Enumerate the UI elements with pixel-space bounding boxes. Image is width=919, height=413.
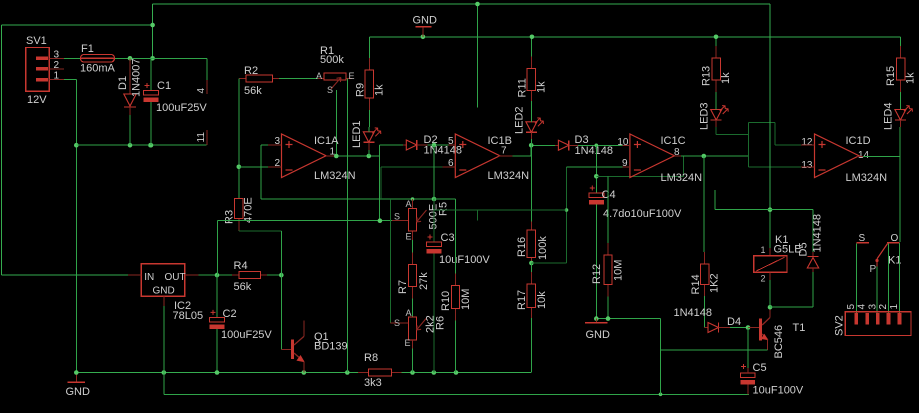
node R13 top — [714, 35, 719, 40]
svg-text:IC1C: IC1C — [661, 135, 686, 147]
svg-text:10uF100V: 10uF100V — [753, 385, 804, 397]
fuse F1 160mA — [81, 55, 115, 63]
wire Q1 base — [281, 349, 289, 351]
svg-text:BC546: BC546 — [773, 325, 785, 359]
wire R1 E to gnd rail — [346, 79, 348, 373]
LED LED1 — [363, 132, 374, 143]
resistor R17 10k — [530, 263, 532, 272]
wire SV1 pin3 to fuse — [64, 57, 81, 59]
svg-text:A: A — [316, 71, 322, 81]
svg-text:C4: C4 — [602, 189, 616, 201]
pin 11 of IC1A power — [206, 130, 208, 145]
svg-text:100k: 100k — [537, 236, 549, 260]
svg-text:IC1A: IC1A — [314, 135, 339, 147]
wire switch O to SV2 pin2 — [888, 244, 890, 313]
wire H1 feedback — [261, 198, 434, 200]
wire relay node — [768, 305, 773, 310]
svg-text:E: E — [349, 71, 355, 81]
svg-text:LM324N: LM324N — [661, 172, 703, 184]
wire 12V drop right — [769, 4, 771, 210]
svg-text:56k: 56k — [234, 281, 252, 293]
wire D2 feed — [380, 144, 403, 146]
wire pin3 feedback drop — [260, 145, 262, 199]
node gnd-sym tap — [421, 35, 426, 40]
wire V+ drop to pin4 — [206, 58, 208, 80]
ground symbol lower-left — [75, 373, 77, 382]
svg-text:13: 13 — [801, 160, 813, 171]
node output-R14 — [702, 154, 707, 159]
svg-text:2: 2 — [878, 304, 889, 310]
node D1 tap — [128, 56, 133, 61]
svg-text:R16: R16 — [516, 237, 528, 257]
svg-text:LM324N: LM324N — [314, 170, 356, 182]
wire H_s left corner down — [217, 221, 219, 275]
diode D1 1N4007 — [124, 94, 136, 106]
wire output riser x=379.6 — [379, 145, 381, 221]
svg-text:4: 4 — [196, 88, 207, 94]
capacitor C2 — [210, 317, 225, 322]
wire D3 to pin10 — [578, 144, 623, 146]
wire C4 riser — [595, 145, 597, 193]
svg-text:S: S — [394, 318, 400, 328]
svg-text:5: 5 — [846, 304, 857, 310]
wire left branch y=25 — [2, 24, 153, 26]
resistor R8 3k3 — [358, 372, 369, 374]
wire D1 column top — [129, 58, 131, 94]
wire mystery drop x=477 — [477, 4, 479, 108]
resistor R3 470E — [238, 198, 240, 200]
relay K1 G5LE coil — [769, 210, 771, 248]
wire relay-D5 top link — [715, 209, 813, 211]
wire integrator feedback — [596, 175, 683, 177]
node pin2 junction — [237, 165, 242, 170]
svg-text:IC1B: IC1B — [488, 135, 512, 147]
svg-text:R3: R3 — [224, 210, 236, 224]
svg-text:9: 9 — [622, 158, 628, 169]
svg-text:1N4148: 1N4148 — [424, 145, 463, 157]
wire gnd spur — [595, 318, 661, 320]
node LED2 junction — [529, 143, 534, 148]
wire emitter return riser — [660, 319, 662, 395]
node T1 base — [746, 325, 751, 330]
node H1-C3 — [432, 197, 437, 202]
svg-text:1: 1 — [889, 304, 900, 310]
svg-text:IN: IN — [144, 272, 154, 283]
node R4-R3-Q1 — [279, 273, 284, 278]
wire y=209.5 branch — [434, 209, 567, 211]
svg-text:1k: 1k — [536, 81, 548, 93]
node pin9-C4 — [594, 174, 599, 179]
svg-text:GND: GND — [153, 286, 175, 297]
wire gnd horizontal D1 C1 pin11 — [76, 144, 206, 146]
node S wiper — [378, 218, 383, 223]
wire gnd bottom rail — [76, 372, 358, 374]
wire pin2 column — [238, 79, 240, 199]
svg-text:11: 11 — [196, 132, 207, 143]
svg-text:D4: D4 — [727, 316, 741, 328]
svg-text:3: 3 — [867, 304, 878, 310]
wire fuse to corner — [115, 57, 208, 59]
svg-text:12V: 12V — [27, 94, 47, 106]
svg-text:R17: R17 — [516, 290, 528, 310]
svg-text:LM324N: LM324N — [488, 170, 530, 182]
capacitor C3 — [427, 242, 442, 247]
svg-text:14: 14 — [858, 150, 870, 161]
wire C5 column — [747, 328, 749, 369]
svg-text:P: P — [870, 264, 877, 275]
svg-text:10: 10 — [617, 137, 629, 148]
svg-text:4: 4 — [857, 304, 868, 310]
svg-text:E: E — [405, 338, 411, 348]
svg-text:1N4148: 1N4148 — [812, 214, 824, 253]
capacitor C4 — [589, 193, 604, 198]
resistor R14 1K2 — [703, 156, 705, 252]
ground symbol middle — [595, 319, 597, 322]
svg-text:1k: 1k — [720, 72, 732, 84]
svg-text:1k: 1k — [374, 84, 386, 96]
wire 12V top rail — [153, 3, 770, 5]
svg-text:10uF100V: 10uF100V — [439, 254, 490, 266]
node top rail tap — [475, 2, 480, 7]
wire riser x=566.5 — [566, 167, 568, 263]
svg-text:S: S — [327, 85, 333, 95]
svg-text:S: S — [859, 233, 866, 244]
svg-text:IC1D: IC1D — [846, 135, 871, 147]
pin GND lead — [163, 296, 165, 306]
wire LED3 link — [716, 134, 748, 136]
wire IC1D output — [857, 155, 863, 157]
svg-text:A: A — [406, 199, 412, 209]
ground symbol top — [422, 28, 424, 37]
wire C1 column — [150, 58, 152, 90]
LED LED2 — [526, 122, 537, 133]
svg-text:T1: T1 — [793, 322, 806, 334]
node C4 bottom — [594, 316, 599, 321]
pin 2 wire — [239, 166, 268, 168]
diode D4 1N4148 — [708, 323, 719, 333]
transistor Q1 BD139 — [290, 349, 292, 351]
svg-text:56k: 56k — [244, 85, 262, 97]
wire D2 to pin5 — [428, 144, 449, 146]
node relay 12V — [768, 207, 773, 212]
resistor R9 1k — [368, 53, 370, 58]
wire LED4 to out to switch O — [899, 127, 901, 242]
pin 4 of IC1A power — [206, 80, 208, 94]
svg-text:470E: 470E — [243, 197, 255, 223]
node pin1-gnd junction — [74, 143, 79, 148]
node C1 bottom — [149, 143, 154, 148]
svg-text:C5: C5 — [753, 362, 767, 374]
svg-text:3k3: 3k3 — [364, 377, 382, 389]
wire SV1 pin1 down — [64, 79, 77, 81]
svg-text:1K2: 1K2 — [709, 273, 721, 293]
pin 3 wire — [261, 144, 268, 146]
node C4 riser tap — [595, 144, 599, 148]
wire C2 column — [216, 275, 218, 317]
wire R2 to R1 A — [279, 78, 318, 80]
svg-text:78L05: 78L05 — [173, 310, 204, 322]
resistor R7 27k — [412, 240, 414, 253]
svg-text:1: 1 — [761, 245, 766, 255]
resistor R13 1k — [715, 37, 717, 46]
potentiometer R5 500E — [392, 220, 408, 222]
svg-text:R14: R14 — [690, 274, 702, 294]
switch K1 contacts — [856, 242, 869, 244]
svg-text:D1: D1 — [117, 76, 129, 90]
resistor R10 10M — [434, 198, 456, 200]
svg-text:12: 12 — [801, 137, 813, 148]
connector SV2 — [845, 312, 911, 336]
svg-text:A: A — [406, 308, 412, 318]
svg-text:2: 2 — [761, 274, 766, 284]
svg-text:F1: F1 — [81, 43, 94, 55]
node out-S — [334, 154, 339, 159]
svg-text:1N4007: 1N4007 — [131, 58, 143, 97]
wire LED2 junction to R16 — [530, 145, 532, 230]
svg-text:1N4148: 1N4148 — [575, 145, 614, 157]
svg-text:GND: GND — [586, 329, 611, 341]
op-amp IC1C — [630, 134, 675, 178]
wire R4 to R3 junction — [267, 274, 281, 276]
wire pin6 drop — [380, 167, 382, 199]
wire out to SV2 pin1 — [899, 243, 901, 313]
op-amp IC1A — [282, 134, 327, 178]
wire base lead — [748, 327, 759, 329]
node OUT junction — [215, 273, 220, 278]
wire C3 column — [433, 145, 435, 199]
transistor T1 BC546 — [759, 319, 762, 341]
svg-text:R10: R10 — [440, 291, 452, 311]
wire pin13 — [748, 166, 801, 168]
svg-text:2: 2 — [54, 60, 60, 71]
resistor R12 10M — [607, 176, 609, 243]
wire left rail — [1, 25, 3, 275]
wire pin6 horizontal — [381, 166, 443, 168]
svg-text:LED2: LED2 — [514, 106, 526, 134]
svg-text:10M: 10M — [613, 260, 625, 281]
diode D5 1N4148 — [812, 210, 814, 252]
svg-text:LED1: LED1 — [351, 120, 363, 148]
svg-text:GND: GND — [413, 15, 438, 27]
svg-text:O: O — [891, 233, 899, 244]
regulator IC2 78L05 — [141, 264, 185, 297]
node D1 bottom — [128, 143, 133, 148]
svg-text:10M: 10M — [460, 289, 472, 310]
svg-text:160mA: 160mA — [80, 63, 116, 75]
wire pin9 — [567, 166, 623, 168]
resistor R15 1k — [900, 37, 902, 46]
capacitor C5 — [740, 373, 755, 378]
svg-text:E: E — [406, 232, 412, 242]
wire emitter to rail — [661, 349, 768, 351]
svg-text:C1: C1 — [157, 80, 171, 92]
svg-text:3: 3 — [54, 50, 60, 61]
wire pin1 output — [326, 155, 336, 157]
svg-text:C2: C2 — [223, 308, 237, 320]
svg-text:500k: 500k — [320, 54, 344, 66]
svg-text:R6: R6 — [435, 316, 447, 330]
wire divider tap — [531, 262, 566, 264]
pin IN lead — [128, 274, 141, 276]
node R16-R17 — [529, 261, 534, 266]
wire top-left drop — [152, 4, 154, 58]
svg-text:1: 1 — [54, 71, 60, 82]
svg-text:SV1: SV1 — [26, 35, 47, 47]
wire pin12 jog — [748, 121, 775, 123]
op-amp IC1B — [455, 134, 500, 178]
wire R3 bottom to R4 junction — [239, 230, 281, 232]
LED LED3 — [711, 110, 722, 121]
svg-text:27k: 27k — [418, 272, 430, 290]
LED LED4 — [895, 110, 906, 121]
resistor R16 100k — [530, 221, 532, 230]
svg-text:R5: R5 — [438, 202, 450, 216]
svg-text:4.7do10uF100V: 4.7do10uF100V — [603, 208, 682, 220]
resistor R4 56k — [232, 274, 239, 276]
node emitter rail tap — [659, 393, 663, 397]
svg-text:R7: R7 — [397, 280, 409, 294]
wire R14 to D4 — [704, 296, 706, 328]
svg-text:100uF25V: 100uF25V — [221, 329, 272, 341]
pin OUT lead — [185, 274, 199, 276]
svg-text:R4: R4 — [234, 260, 248, 272]
svg-text:R15: R15 — [885, 66, 897, 86]
svg-text:2: 2 — [274, 158, 280, 169]
potentiometer R1 500k — [318, 78, 324, 80]
resistor R2 56k — [239, 78, 246, 80]
wire gnd LED rail — [369, 36, 900, 38]
svg-text:R9: R9 — [355, 83, 367, 97]
svg-text:R12: R12 — [591, 264, 603, 284]
svg-text:7: 7 — [501, 146, 507, 157]
capacitor C1 — [144, 91, 159, 96]
svg-text:100uF25V: 100uF25V — [156, 102, 207, 114]
wire D3 feed — [531, 144, 555, 146]
wire x=748 riser — [747, 122, 749, 167]
wire IC1B out jog — [498, 155, 513, 157]
diode D3 1N4148 — [555, 144, 558, 146]
wire R6 wiper drop — [389, 199, 391, 323]
svg-text:S: S — [394, 212, 400, 222]
wire R6 E to R8 — [412, 349, 414, 373]
node D2-C3 junction — [432, 143, 437, 148]
svg-text:LED3: LED3 — [699, 102, 711, 130]
wire H_s +5 to wiper — [218, 220, 392, 222]
node fuse-rail junction — [150, 23, 155, 28]
svg-text:GND: GND — [66, 386, 91, 398]
svg-text:D5: D5 — [798, 242, 810, 256]
node R11 top — [530, 35, 535, 40]
svg-text:LM324N: LM324N — [846, 172, 888, 184]
wire switch S to SV2 pin5 — [855, 244, 857, 313]
svg-text:LED4: LED4 — [883, 102, 895, 130]
connector SV1 — [26, 48, 50, 92]
svg-text:OUT: OUT — [165, 272, 186, 283]
wire IC2 gnd to rail — [163, 306, 165, 373]
node x566 y209 — [565, 208, 569, 212]
svg-text:C3: C3 — [441, 232, 455, 244]
svg-text:1k: 1k — [905, 72, 917, 84]
svg-text:1N4148: 1N4148 — [674, 307, 713, 319]
diode D2 1N4148 — [403, 144, 406, 146]
potentiometer R6 2k2 — [408, 317, 416, 340]
svg-text:R13: R13 — [701, 66, 713, 86]
wire OUT to R4 — [199, 274, 232, 276]
wire lower gnd rail y=394 — [163, 373, 165, 395]
svg-text:6: 6 — [448, 158, 454, 169]
node gnd-net left — [148, 143, 153, 148]
svg-text:R11: R11 — [517, 78, 529, 97]
svg-text:10k: 10k — [536, 291, 548, 309]
op-amp IC1D — [815, 134, 860, 178]
wire to IC2 IN — [2, 274, 129, 276]
svg-text:R8: R8 — [364, 352, 378, 364]
svg-text:BD139: BD139 — [314, 341, 348, 353]
svg-text:R2: R2 — [244, 65, 258, 77]
wire IC1C output — [674, 155, 681, 157]
node gnd rail dots — [74, 370, 79, 375]
svg-text:SV2: SV2 — [834, 315, 846, 336]
resistor R11 1k — [530, 48, 532, 57]
wire switch P to SV2 pin3 — [876, 266, 878, 313]
